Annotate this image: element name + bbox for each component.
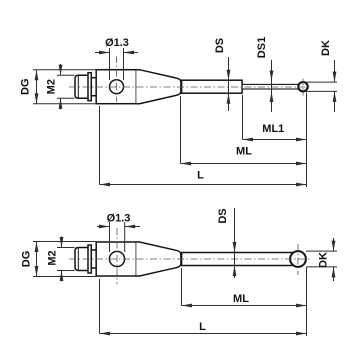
neck groove: [91, 78, 96, 96]
svg-text:DK: DK: [318, 252, 330, 268]
stem thin DS1 section: [242, 84, 303, 89]
ruby ball: [290, 251, 306, 267]
svg-text:DS: DS: [214, 38, 226, 53]
svg-text:L: L: [197, 170, 204, 182]
svg-text:M2: M2: [46, 79, 58, 94]
neck groove: [91, 250, 96, 268]
hole vertical centerline bottom: [116, 228, 118, 284]
svg-text:DS1: DS1: [256, 37, 268, 58]
ruby ball: [298, 82, 307, 91]
svg-text:ML: ML: [236, 146, 252, 158]
svg-text:DS: DS: [217, 208, 229, 223]
cross hole: [109, 251, 124, 266]
ball vertical centerline: [302, 79, 304, 96]
collar disc: [88, 245, 91, 273]
taper cone: [136, 242, 181, 276]
hole vertical centerline: [116, 56, 118, 102]
svg-text:DG: DG: [21, 251, 33, 268]
stem thick DS section: [182, 80, 243, 93]
svg-text:ML: ML: [233, 293, 249, 305]
svg-text:L: L: [199, 321, 206, 333]
ball vertical centerline bottom: [297, 244, 299, 275]
cross hole: [110, 80, 124, 94]
taper cone: [136, 70, 181, 104]
collar disc: [88, 73, 91, 101]
stylus body: [96, 242, 136, 276]
svg-text:M2: M2: [47, 250, 59, 265]
svg-text:DG: DG: [20, 78, 32, 95]
svg-text:Ø1.3: Ø1.3: [105, 37, 129, 49]
stem DS section: [182, 253, 293, 266]
thread M2 section: [75, 75, 88, 98]
stylus body: [96, 70, 136, 104]
horizontal centerline bottom: [69, 258, 311, 260]
svg-text:DK: DK: [320, 40, 332, 56]
thread M2 section: [75, 248, 88, 271]
svg-text:ML1: ML1: [262, 123, 284, 135]
horizontal centerline: [69, 86, 311, 88]
svg-text:Ø1.3: Ø1.3: [107, 213, 131, 225]
